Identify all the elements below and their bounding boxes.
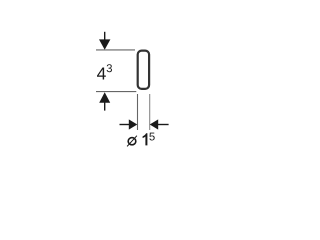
right extension line below pill <box>149 94 151 130</box>
bottom dimension arrowhead (up) <box>99 92 110 103</box>
dimension label 4 <box>97 67 106 79</box>
right diameter arrow tail <box>158 124 169 126</box>
diameter label superscript 5 <box>149 133 154 141</box>
bottom dimension arrow tail <box>104 102 106 111</box>
diameter label o-slash (drawn) <box>128 138 136 145</box>
right diameter arrowhead (left) <box>150 119 159 129</box>
bottom dimension extension line <box>96 91 136 93</box>
left diameter arrow tail <box>120 124 131 126</box>
top dimension arrowhead (down) <box>99 39 110 49</box>
top dimension extension line <box>96 49 135 51</box>
top dimension arrow tail <box>104 32 106 41</box>
left diameter arrowhead (right) <box>129 119 138 129</box>
dimension label superscript 3 <box>107 64 112 72</box>
left extension line below pill <box>137 94 139 130</box>
diameter label digit 1 (custom, no foot serif) <box>143 133 148 145</box>
pill-shaped part outline <box>138 51 149 89</box>
